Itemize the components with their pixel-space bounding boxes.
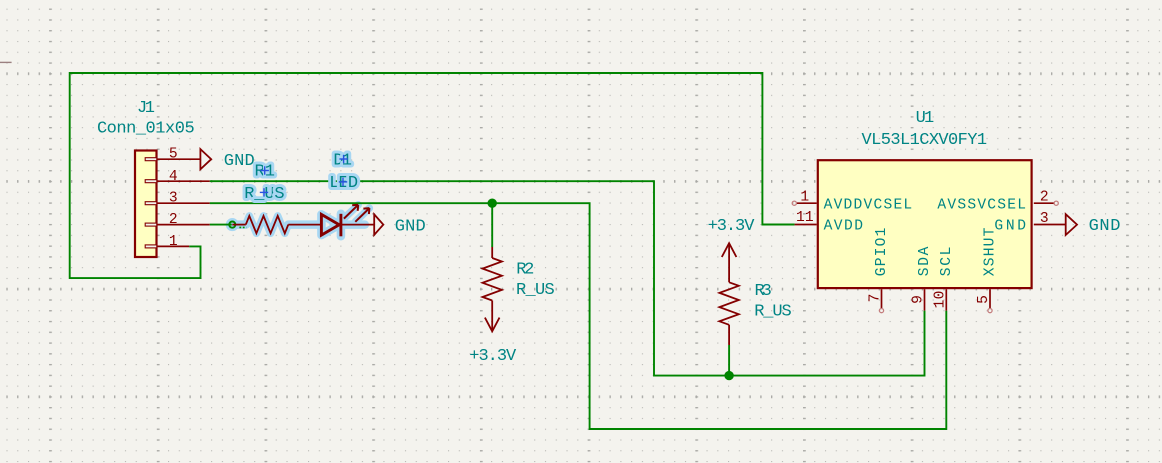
junction at R2 top — [488, 199, 497, 208]
junction at R3 bottom — [724, 371, 733, 380]
svg-text:GND: GND — [224, 152, 255, 171]
U1 pin 2 unconnected circle — [1054, 201, 1058, 205]
svg-text:3: 3 — [1040, 211, 1049, 227]
svg-text:R_US: R_US — [516, 281, 555, 300]
svg-text:VL53L1CXV0FY1: VL53L1CXV0FY1 — [862, 131, 988, 150]
R_US anchor cross — [260, 188, 268, 196]
svg-text:3: 3 — [169, 191, 178, 207]
svg-text:5: 5 — [976, 295, 992, 304]
selected pin dash marks — [239, 226, 246, 228]
wire — [70, 73, 795, 278]
U1 pin 5 XSHUT — [989, 289, 991, 308]
svg-text:GND: GND — [395, 218, 426, 237]
svg-text:AVDD: AVDD — [824, 219, 864, 235]
dangling wire end circle at R1 pin 1 — [229, 222, 235, 228]
svg-text:10: 10 — [933, 291, 949, 309]
IC U1 body — [818, 160, 1032, 288]
svg-text:2: 2 — [1040, 189, 1049, 205]
svg-text:R_US: R_US — [754, 303, 792, 322]
svg-text:+3.3V: +3.3V — [708, 217, 756, 236]
svg-text:R2: R2 — [516, 261, 534, 280]
svg-text:1: 1 — [800, 190, 809, 206]
wire J1 pin2 to R1 — [210, 224, 232, 226]
selection halo for R1 and D1 — [229, 205, 369, 237]
svg-text:AVDDVCSEL: AVDDVCSEL — [824, 197, 913, 213]
svg-text:XSHUT: XSHUT — [983, 227, 999, 276]
U1 pin 11 AVDD — [795, 224, 817, 226]
svg-text:D1: D1 — [333, 152, 352, 171]
svg-text:Conn_01x05: Conn_01x05 — [97, 120, 195, 139]
sheet border tick — [0, 62, 12, 63]
svg-text:9: 9 — [911, 295, 927, 304]
wire top bus from J1 pin1 loop to U1 AVDD — [70, 73, 795, 278]
hierarchical label GND after D1 — [374, 214, 383, 235]
LED D1 (selected) — [321, 205, 374, 237]
D1 anchor cross — [339, 155, 347, 163]
J1 pin 1 — [157, 245, 189, 247]
svg-text:11: 11 — [796, 210, 814, 226]
U1 pin 7 unconnected circle — [879, 309, 883, 313]
U1 pin 1 AVDDVCSEL — [796, 202, 817, 204]
svg-text:GPIO1: GPIO1 — [874, 227, 890, 276]
resistor R2 — [483, 247, 502, 301]
J1 pin 2 — [157, 224, 209, 226]
connector J1 body — [135, 151, 157, 258]
resistor R1 (selected) — [232, 216, 321, 233]
svg-text:R3: R3 — [755, 282, 772, 301]
svg-text:SCL: SCL — [939, 247, 955, 277]
svg-text:SDA: SDA — [917, 246, 933, 276]
svg-text:2: 2 — [169, 212, 178, 228]
U1 pin 3 GND — [1034, 224, 1066, 226]
svg-text:7: 7 — [868, 294, 884, 303]
J1 pin 3 — [157, 202, 209, 204]
J1 pin 5 — [157, 158, 200, 160]
U1 pin 1 unconnected circle — [792, 201, 796, 205]
wire R3 bottom to junction — [728, 345, 730, 376]
U1 pin 7 GPIO1 — [881, 289, 883, 308]
svg-text:GND: GND — [994, 219, 1026, 235]
svg-text:J1: J1 — [137, 99, 155, 118]
J1 pin numbers — [169, 146, 178, 249]
U1 pin 5 unconnected circle — [988, 309, 992, 313]
hierarchical label GND at J1 pin 5 — [200, 149, 211, 169]
hierarchical label GND at U1 pin 3 — [1066, 214, 1077, 235]
J1 pin 4 — [157, 180, 209, 182]
svg-text:+3.3V: +3.3V — [469, 347, 517, 366]
svg-text:U1: U1 — [916, 109, 935, 128]
J1 socket notches — [145, 158, 157, 248]
LED anchor cross — [339, 178, 347, 186]
U1 pin 10 SCL — [945, 289, 947, 310]
svg-text:GND: GND — [1089, 217, 1121, 236]
svg-text:5: 5 — [169, 146, 178, 162]
svg-text:4: 4 — [169, 169, 178, 185]
wire J1 pin3 to U1 SCL — [210, 203, 947, 429]
R1 anchor cross — [261, 166, 269, 174]
svg-text:AVSSVCSEL: AVSSVCSEL — [937, 197, 1026, 213]
power symbol +3.3V above R3 — [722, 243, 737, 257]
wire R2 top to junction — [491, 203, 493, 247]
power symbol +3.3V below R2 — [485, 301, 500, 332]
resistor R3 — [719, 258, 738, 346]
svg-text:1: 1 — [169, 234, 178, 250]
U1 pin 2 AVSSVCSEL — [1034, 202, 1055, 204]
U1 pin 9 SDA — [924, 289, 926, 310]
wire J1 pin4 to U1 SDA — [210, 181, 925, 375]
